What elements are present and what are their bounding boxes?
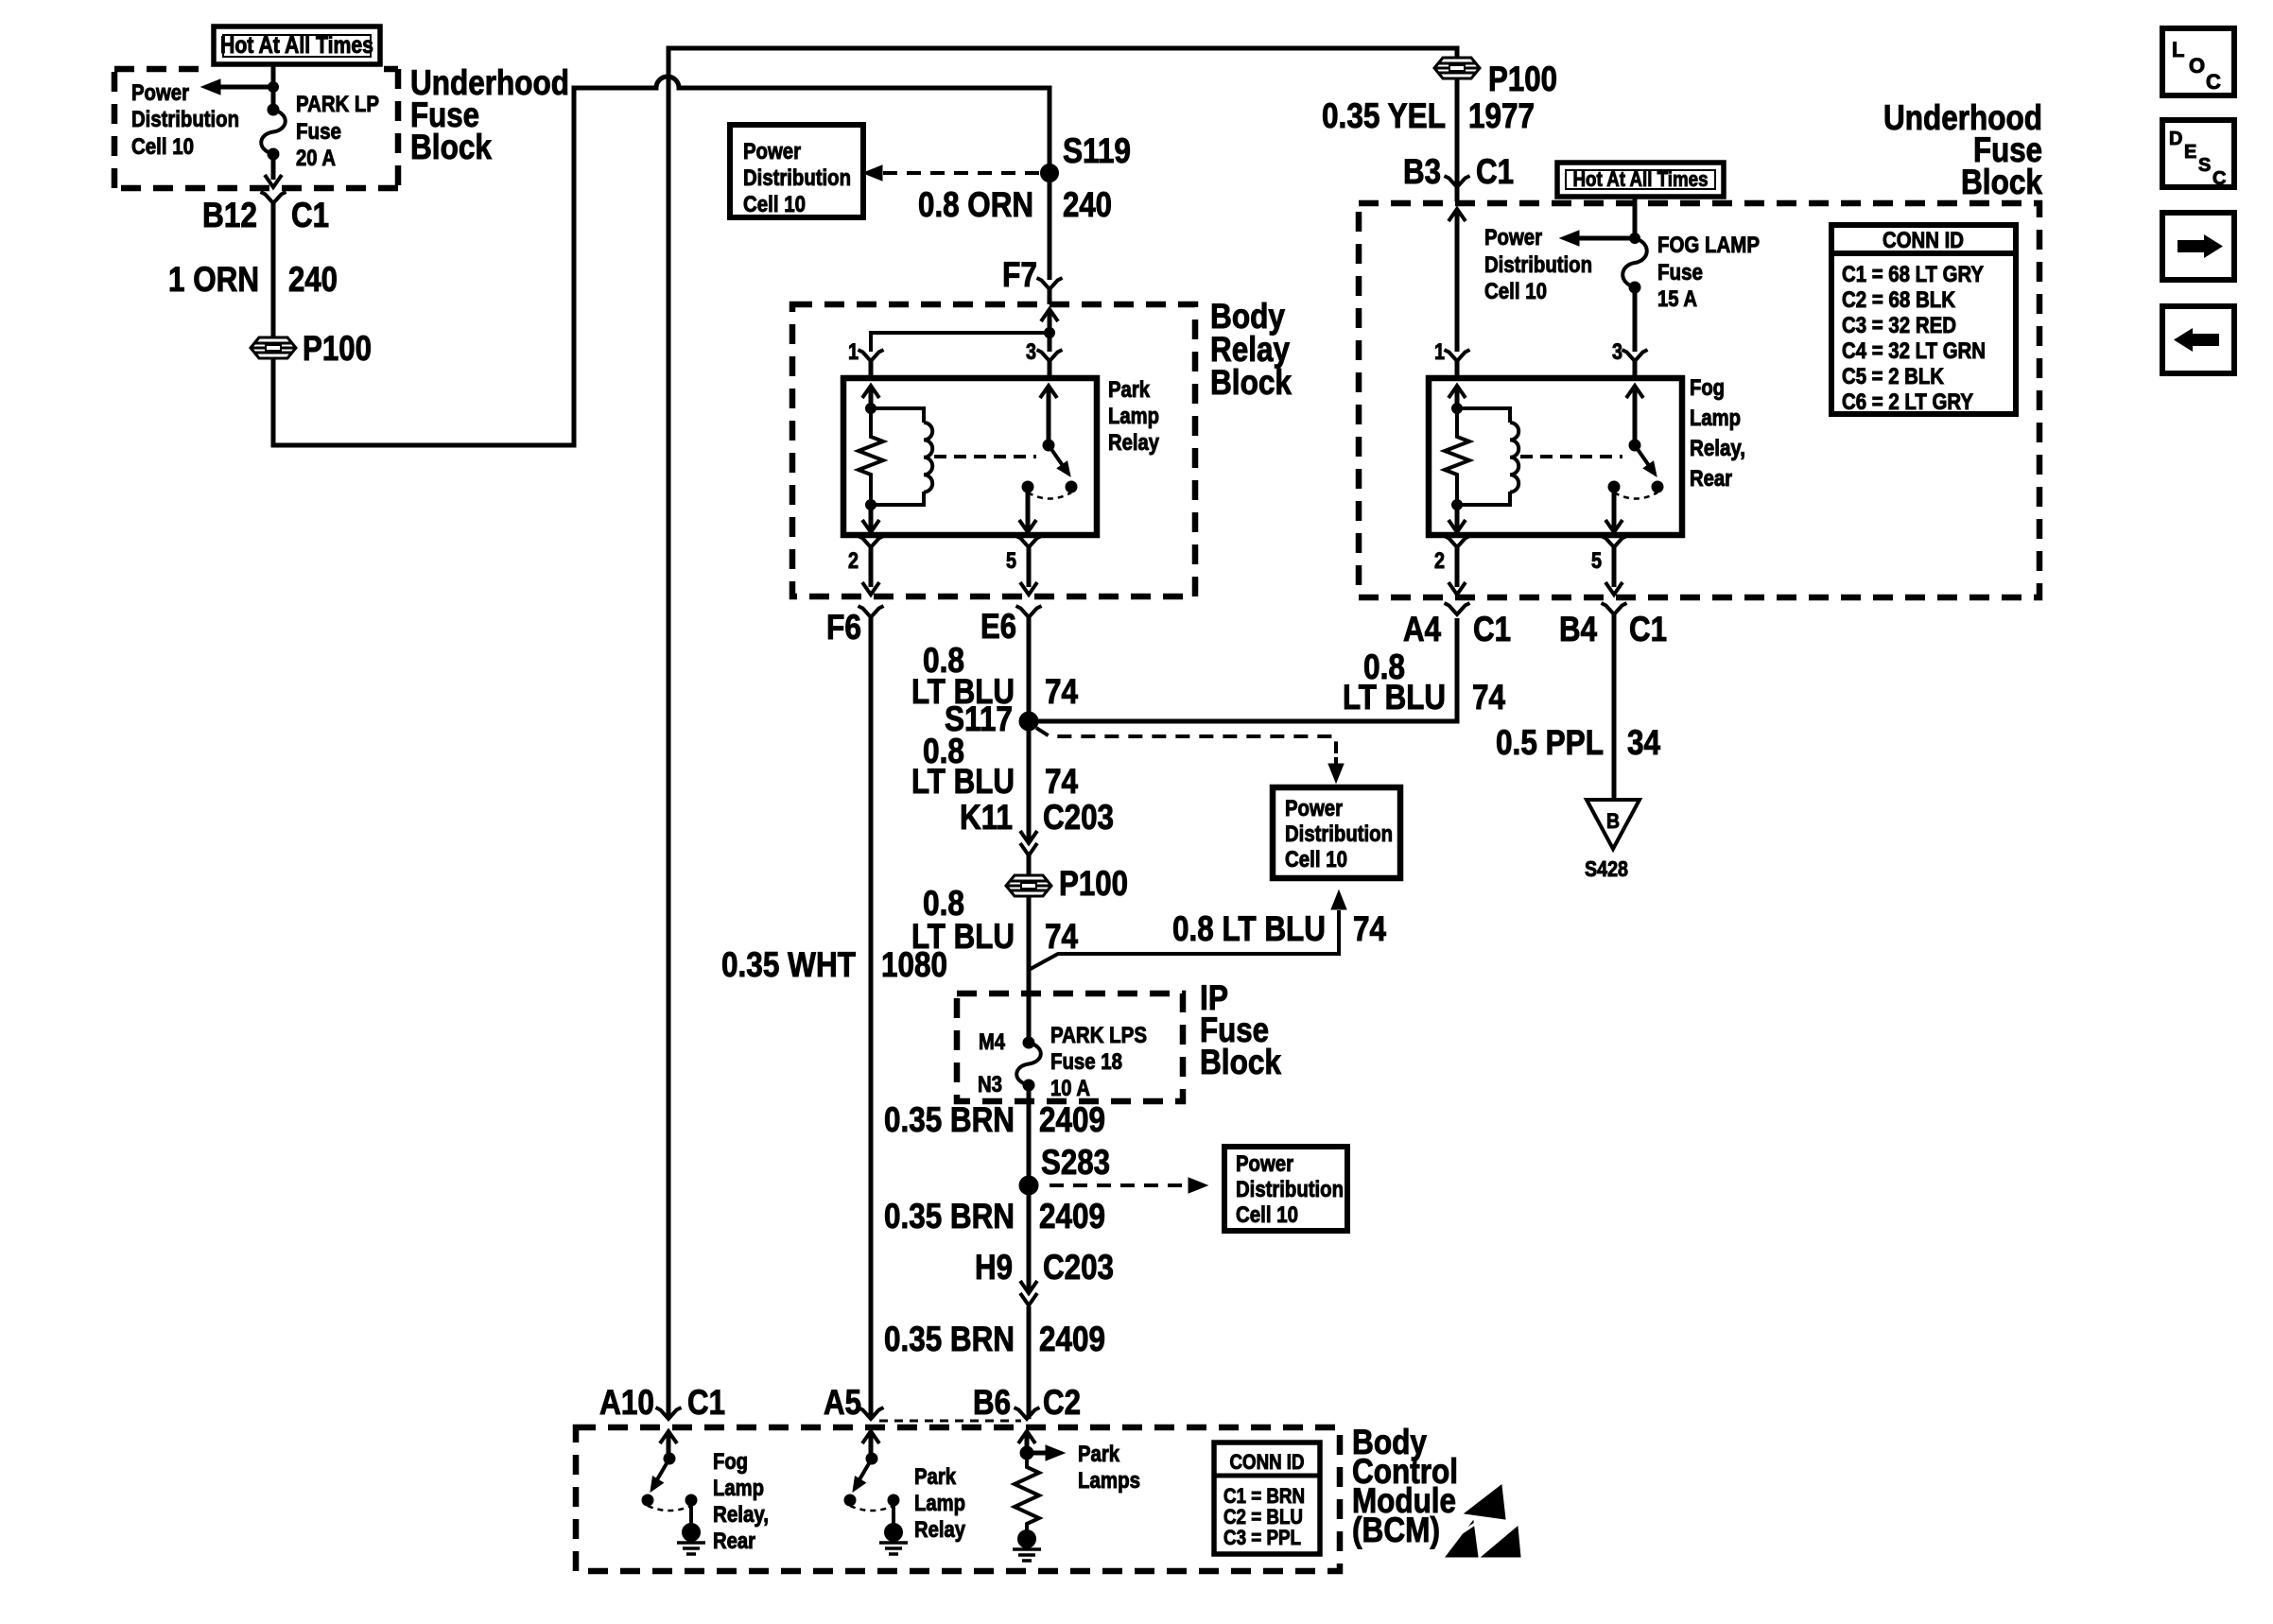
svg-text:Distribution: Distribution xyxy=(743,165,851,191)
svg-text:74: 74 xyxy=(1353,909,1386,948)
pin 2 connector below relay xyxy=(859,536,884,547)
svg-text:5: 5 xyxy=(1591,548,1602,574)
svg-text:A10: A10 xyxy=(599,1383,654,1422)
wire fuse to pin 3 xyxy=(1633,287,1638,352)
svg-text:FOG LAMP: FOG LAMP xyxy=(1657,233,1760,258)
Underhood Fuse Block dashed box (left) xyxy=(114,69,398,188)
Power Distribution Cell 10 box (S119) xyxy=(730,125,863,217)
LOC legend box xyxy=(2162,28,2234,95)
splice S119 xyxy=(1041,164,1059,182)
splice S117 xyxy=(1019,712,1038,731)
svg-text:20 A: 20 A xyxy=(296,146,336,171)
svg-text:CONN ID: CONN ID xyxy=(1230,1450,1305,1474)
svg-text:P100: P100 xyxy=(1488,60,1557,98)
svg-text:Lamp: Lamp xyxy=(914,1491,965,1516)
svg-text:S: S xyxy=(2198,155,2211,176)
park lamp relay switch (BCM) xyxy=(862,1431,879,1443)
wire from top feed to BCM A10 and to right P100 xyxy=(668,48,1457,1419)
grommet P100 (top right) xyxy=(1434,58,1480,78)
fog lamp relay rear actuation dashed link xyxy=(1520,455,1622,458)
svg-text:O: O xyxy=(2189,54,2205,78)
fog lamp relay rear coil top junction xyxy=(1452,404,1463,414)
Body Relay Block dashed box xyxy=(792,304,1195,596)
DESC legend box xyxy=(2162,120,2234,187)
fog lamp relay rear coil bottom junction xyxy=(1452,500,1463,510)
fuse PARK LPS Fuse 18 10A xyxy=(1023,1037,1034,1048)
svg-text:M4: M4 xyxy=(979,1029,1006,1055)
wire S117 to A4 xyxy=(1029,618,1457,721)
connector B12 C1 xyxy=(261,192,286,203)
svg-text:Fuse: Fuse xyxy=(296,119,341,145)
svg-text:1: 1 xyxy=(1434,339,1445,365)
ESD warning symbol 2 xyxy=(1446,1521,1478,1557)
svg-text:F7: F7 xyxy=(1002,255,1037,294)
svg-text:Fuse: Fuse xyxy=(1657,260,1703,285)
svg-text:Relay,: Relay, xyxy=(1690,436,1745,461)
svg-text:10 A: 10 A xyxy=(1050,1076,1090,1101)
svg-text:LT BLU: LT BLU xyxy=(911,762,1015,801)
svg-text:3: 3 xyxy=(1612,339,1622,365)
svg-text:C1: C1 xyxy=(1476,152,1514,191)
park lamps ground xyxy=(1018,1530,1036,1548)
svg-text:C1: C1 xyxy=(1473,610,1511,648)
svg-text:Lamp: Lamp xyxy=(1690,406,1741,431)
park lamp relay pin 1 entry arrow xyxy=(862,386,879,398)
Park Lamp Relay box xyxy=(843,378,1097,535)
wire B3 to pin 1 xyxy=(1449,209,1466,221)
svg-text:S283: S283 xyxy=(1041,1143,1110,1182)
fuse FOG LAMP 15 A xyxy=(1622,238,1647,287)
svg-text:0.8 LT BLU: 0.8 LT BLU xyxy=(1172,909,1326,948)
svg-text:2: 2 xyxy=(1434,548,1445,574)
wire fuse output arrow xyxy=(271,154,276,180)
svg-text:P100: P100 xyxy=(1059,864,1128,903)
svg-text:240: 240 xyxy=(288,260,338,299)
svg-text:K11: K11 xyxy=(960,798,1013,837)
svg-text:Block: Block xyxy=(1200,1043,1281,1081)
svg-text:C1: C1 xyxy=(291,196,329,234)
fog lamp relay rear pin 5 exit arrow xyxy=(1612,487,1617,529)
svg-text:P100: P100 xyxy=(303,329,372,368)
Hot At All Times label box (left) xyxy=(214,26,380,64)
svg-text:B12: B12 xyxy=(202,196,257,234)
svg-text:Block: Block xyxy=(1210,363,1292,402)
grommet P100 (left) xyxy=(251,337,296,358)
park lamp relay actuation dashed link xyxy=(934,455,1036,458)
pin 3 connector xyxy=(1037,350,1063,361)
svg-text:F6: F6 xyxy=(826,608,861,647)
svg-text:B4: B4 xyxy=(1559,610,1597,648)
wire S283 down 0.35 BRN 2409 xyxy=(1027,1185,1032,1291)
arrow to Power Distribution Cell 10 (left) xyxy=(219,85,275,90)
fog lamp relay rear pin 3 entry arrow xyxy=(1626,386,1643,398)
svg-text:2: 2 xyxy=(848,548,859,574)
svg-text:S428: S428 xyxy=(1585,856,1628,881)
svg-text:Cell 10: Cell 10 xyxy=(1484,279,1547,304)
connector F6 xyxy=(859,606,884,617)
wire junction to coil park lamp relay xyxy=(871,408,924,423)
park lamp relay switch pivot xyxy=(1043,440,1054,451)
svg-text:Park: Park xyxy=(914,1464,957,1490)
svg-text:Park: Park xyxy=(1108,377,1151,403)
park lamps driver (BCM) xyxy=(1018,1431,1035,1443)
svg-text:Distribution: Distribution xyxy=(131,107,239,132)
park lamps resistor xyxy=(1015,1453,1039,1529)
wire 0.8 ORN 240 xyxy=(1048,173,1052,280)
Underhood Fuse Block dashed box (right) xyxy=(1359,203,2039,597)
park lamp relay pin 3 entry arrow xyxy=(1040,386,1057,398)
svg-text:C1: C1 xyxy=(687,1383,725,1422)
svg-text:H9: H9 xyxy=(975,1248,1013,1287)
svg-text:LT BLU: LT BLU xyxy=(911,917,1015,956)
svg-text:C2: C2 xyxy=(1043,1383,1081,1422)
svg-text:LT BLU: LT BLU xyxy=(1343,678,1446,717)
fog lamp relay rear switch pivot xyxy=(1629,440,1640,451)
CONN ID table (BCM) xyxy=(1214,1443,1320,1554)
grommet P100 (center) xyxy=(1006,875,1051,896)
svg-text:Cell 10: Cell 10 xyxy=(1285,847,1347,872)
svg-text:L: L xyxy=(2172,38,2184,61)
svg-text:B6: B6 xyxy=(973,1383,1011,1422)
CONN ID table (underhood) xyxy=(1831,225,2016,414)
branch wire to Power Distribution (0.8 LT BLU 74) xyxy=(1029,910,1339,970)
svg-text:0.35 YEL: 0.35 YEL xyxy=(1322,96,1446,135)
svg-text:B: B xyxy=(1606,809,1620,833)
svg-text:Fog: Fog xyxy=(1690,375,1725,401)
relay coil fog lamp relay rear xyxy=(1510,423,1518,492)
Power Distribution Cell 10 box (S117) xyxy=(1273,787,1400,878)
fog lamp relay rear switch arm xyxy=(1635,445,1650,467)
pin 5 connector below relay xyxy=(1016,536,1042,547)
wire F6 to BCM A5, 0.35 WHT 1080 xyxy=(869,617,874,1419)
svg-text:0.35 BRN: 0.35 BRN xyxy=(884,1320,1015,1358)
Power Distribution Cell 10 box (S283) xyxy=(1224,1147,1347,1231)
svg-text:Fuse 18: Fuse 18 xyxy=(1050,1049,1122,1075)
svg-text:CONN ID: CONN ID xyxy=(1883,228,1964,253)
svg-text:1977: 1977 xyxy=(1468,96,1535,135)
svg-text:C: C xyxy=(2212,168,2226,189)
park lamp relay switch arm xyxy=(1049,445,1064,467)
wire F7 into block xyxy=(1041,309,1058,321)
resistor park lamp relay xyxy=(859,408,883,505)
svg-text:Distribution: Distribution xyxy=(1236,1177,1344,1202)
svg-text:C203: C203 xyxy=(1043,798,1114,837)
svg-text:Relay: Relay xyxy=(914,1517,966,1543)
Body Control Module dashed box xyxy=(576,1427,1340,1571)
wire P100 to B3, 0.35 YEL 1977 xyxy=(1455,78,1460,187)
park lamp relay pin 2 exit arrow xyxy=(869,505,874,529)
svg-text:Power: Power xyxy=(743,139,801,164)
svg-text:(BCM): (BCM) xyxy=(1352,1511,1440,1549)
svg-text:34: 34 xyxy=(1627,723,1660,762)
fuse PARK LP 20 A xyxy=(268,104,279,115)
dashed arrow S119 to Power Distribution xyxy=(883,171,1042,175)
wire coil bottom fog lamp relay rear xyxy=(1457,492,1510,505)
wire B4 to S428, 0.5 PPL 34 xyxy=(1612,614,1617,798)
svg-text:Rear: Rear xyxy=(713,1529,755,1554)
svg-text:Distribution: Distribution xyxy=(1285,821,1393,847)
fog lamp relay rear switch contacts xyxy=(1608,481,1620,492)
park lamp relay pin 5 exit arrow xyxy=(1026,487,1031,529)
svg-text:Power: Power xyxy=(1484,225,1542,251)
svg-text:Cell 10: Cell 10 xyxy=(1236,1202,1298,1228)
svg-text:2409: 2409 xyxy=(1039,1320,1105,1358)
svg-text:C5 = 2 BLK: C5 = 2 BLK xyxy=(1842,364,1945,389)
svg-text:C203: C203 xyxy=(1043,1248,1114,1287)
svg-text:15 A: 15 A xyxy=(1657,286,1697,312)
svg-text:A5: A5 xyxy=(824,1383,861,1422)
svg-text:Power: Power xyxy=(1236,1151,1293,1177)
svg-text:C4 = 32 LT GRN: C4 = 32 LT GRN xyxy=(1842,338,1986,364)
svg-text:Block: Block xyxy=(1961,163,2042,201)
node feed junction xyxy=(269,82,279,93)
wire to B6, 0.35 BRN 2409 xyxy=(1027,1306,1032,1419)
svg-text:Lamp: Lamp xyxy=(713,1476,764,1501)
svg-text:Lamp: Lamp xyxy=(1108,404,1159,429)
wire from Hot At All Times into fuse block xyxy=(271,62,276,107)
relay coil park lamp relay xyxy=(924,423,932,492)
pin 1 connector xyxy=(859,350,884,361)
svg-text:Distribution: Distribution xyxy=(1484,252,1592,278)
svg-text:E6: E6 xyxy=(980,607,1016,646)
wire coil bottom park lamp relay xyxy=(871,492,924,505)
svg-text:Relay,: Relay, xyxy=(713,1502,769,1528)
svg-text:Power: Power xyxy=(131,80,189,106)
pin 3 connector (fog relay) xyxy=(1622,350,1648,361)
svg-text:D: D xyxy=(2169,129,2182,149)
svg-text:240: 240 xyxy=(1063,185,1112,224)
dashed arrow S283 to Power Distribution xyxy=(1050,1183,1188,1187)
svg-text:S119: S119 xyxy=(1063,131,1131,170)
Fog Lamp Relay Rear box xyxy=(1429,378,1682,535)
svg-text:N3: N3 xyxy=(978,1072,1002,1097)
wire to pin 1 xyxy=(871,333,1050,352)
svg-text:Power: Power xyxy=(1285,796,1343,821)
svg-text:Fog: Fog xyxy=(713,1449,748,1475)
svg-text:0.5 PPL: 0.5 PPL xyxy=(1496,723,1604,762)
dashed arrow S117 to Power Distribution xyxy=(1036,728,1336,753)
feed junction (right) xyxy=(1630,233,1640,244)
svg-text:74: 74 xyxy=(1045,762,1078,801)
fog lamp relay rear switch (BCM) xyxy=(660,1431,677,1443)
svg-text:Hot At All Times: Hot At All Times xyxy=(1573,167,1709,191)
fog lamp relay rear pin 2 exit arrow xyxy=(1455,505,1460,529)
svg-text:A4: A4 xyxy=(1403,610,1441,648)
wire below P100 0.8 LT BLU 74 xyxy=(1027,896,1032,1041)
svg-text:0.35 WHT: 0.35 WHT xyxy=(721,945,856,984)
svg-text:Lamps: Lamps xyxy=(1078,1468,1140,1494)
pin 1 connector (fog relay) xyxy=(1445,350,1470,361)
svg-text:2409: 2409 xyxy=(1039,1100,1105,1139)
arrow to Power Distribution Cell 10 (right) xyxy=(1578,236,1637,241)
svg-text:C3 = PPL: C3 = PPL xyxy=(1223,1526,1301,1549)
svg-text:E: E xyxy=(2184,142,2196,163)
pin 5 connector below fog relay xyxy=(1602,536,1627,547)
splice symbol B S428 xyxy=(1587,800,1640,849)
svg-text:2409: 2409 xyxy=(1039,1197,1105,1235)
svg-text:Block: Block xyxy=(410,128,492,166)
resistor fog lamp relay rear xyxy=(1445,408,1469,505)
fog lamp relay rear pin 1 entry arrow xyxy=(1449,386,1466,398)
wire from P100 down right and up to S119 branch xyxy=(273,77,1050,445)
wire fuse to S283, 0.35 BRN 2409 xyxy=(1027,1085,1032,1176)
left arrow legend box xyxy=(2162,306,2234,373)
Hot At All Times label box (right) xyxy=(1557,163,1724,197)
svg-text:Cell 10: Cell 10 xyxy=(743,192,806,217)
pin 2 connector below fog relay xyxy=(1445,536,1470,547)
svg-text:Hot At All Times: Hot At All Times xyxy=(220,32,373,59)
park lamp relay coil bottom junction xyxy=(866,500,876,510)
wire junction to coil fog lamp relay rear xyxy=(1457,408,1510,423)
svg-text:C6 = 2 LT GRY: C6 = 2 LT GRY xyxy=(1842,389,1973,415)
svg-text:74: 74 xyxy=(1472,678,1505,717)
svg-text:PARK LP: PARK LP xyxy=(296,92,379,117)
svg-text:C3 = 32 RED: C3 = 32 RED xyxy=(1842,313,1956,338)
connector E6 xyxy=(1016,606,1042,617)
svg-text:0.35 BRN: 0.35 BRN xyxy=(884,1197,1015,1235)
svg-text:74: 74 xyxy=(1045,672,1078,711)
park lamp relay coil top junction xyxy=(866,404,876,414)
junction above relay xyxy=(1045,328,1055,338)
svg-text:1 ORN: 1 ORN xyxy=(168,260,259,299)
park lamp relay switch contacts xyxy=(1022,481,1033,492)
svg-text:C2 = 68 BLK: C2 = 68 BLK xyxy=(1842,287,1956,313)
right arrow legend box xyxy=(2162,213,2234,280)
svg-text:1: 1 xyxy=(848,339,859,365)
IP Fuse Block dashed box xyxy=(957,993,1183,1101)
wire from Hot At All Times to fuse xyxy=(1633,197,1638,236)
svg-text:74: 74 xyxy=(1045,917,1078,956)
wire E6 to S117, 0.8 LT BLU 74 xyxy=(1027,617,1032,841)
svg-text:Rear: Rear xyxy=(1690,466,1732,492)
svg-text:Relay: Relay xyxy=(1108,430,1160,456)
svg-text:Park: Park xyxy=(1078,1442,1120,1467)
svg-text:Cell 10: Cell 10 xyxy=(131,134,194,160)
svg-text:B3: B3 xyxy=(1403,152,1441,191)
fine dashed connector line A5-B6 xyxy=(879,1420,1021,1423)
svg-text:C1 = 68 LT GRY: C1 = 68 LT GRY xyxy=(1842,262,1984,287)
ESD warning triangle 1 xyxy=(1465,1485,1505,1519)
svg-text:0.8 ORN: 0.8 ORN xyxy=(918,185,1033,224)
svg-text:C1: C1 xyxy=(1629,610,1667,648)
svg-text:0.35 BRN: 0.35 BRN xyxy=(884,1100,1015,1139)
wire 1 ORN 240 xyxy=(271,203,276,337)
svg-text:5: 5 xyxy=(1006,548,1016,574)
svg-text:PARK LPS: PARK LPS xyxy=(1050,1023,1147,1048)
svg-text:3: 3 xyxy=(1026,339,1036,365)
svg-text:C: C xyxy=(2206,70,2221,94)
